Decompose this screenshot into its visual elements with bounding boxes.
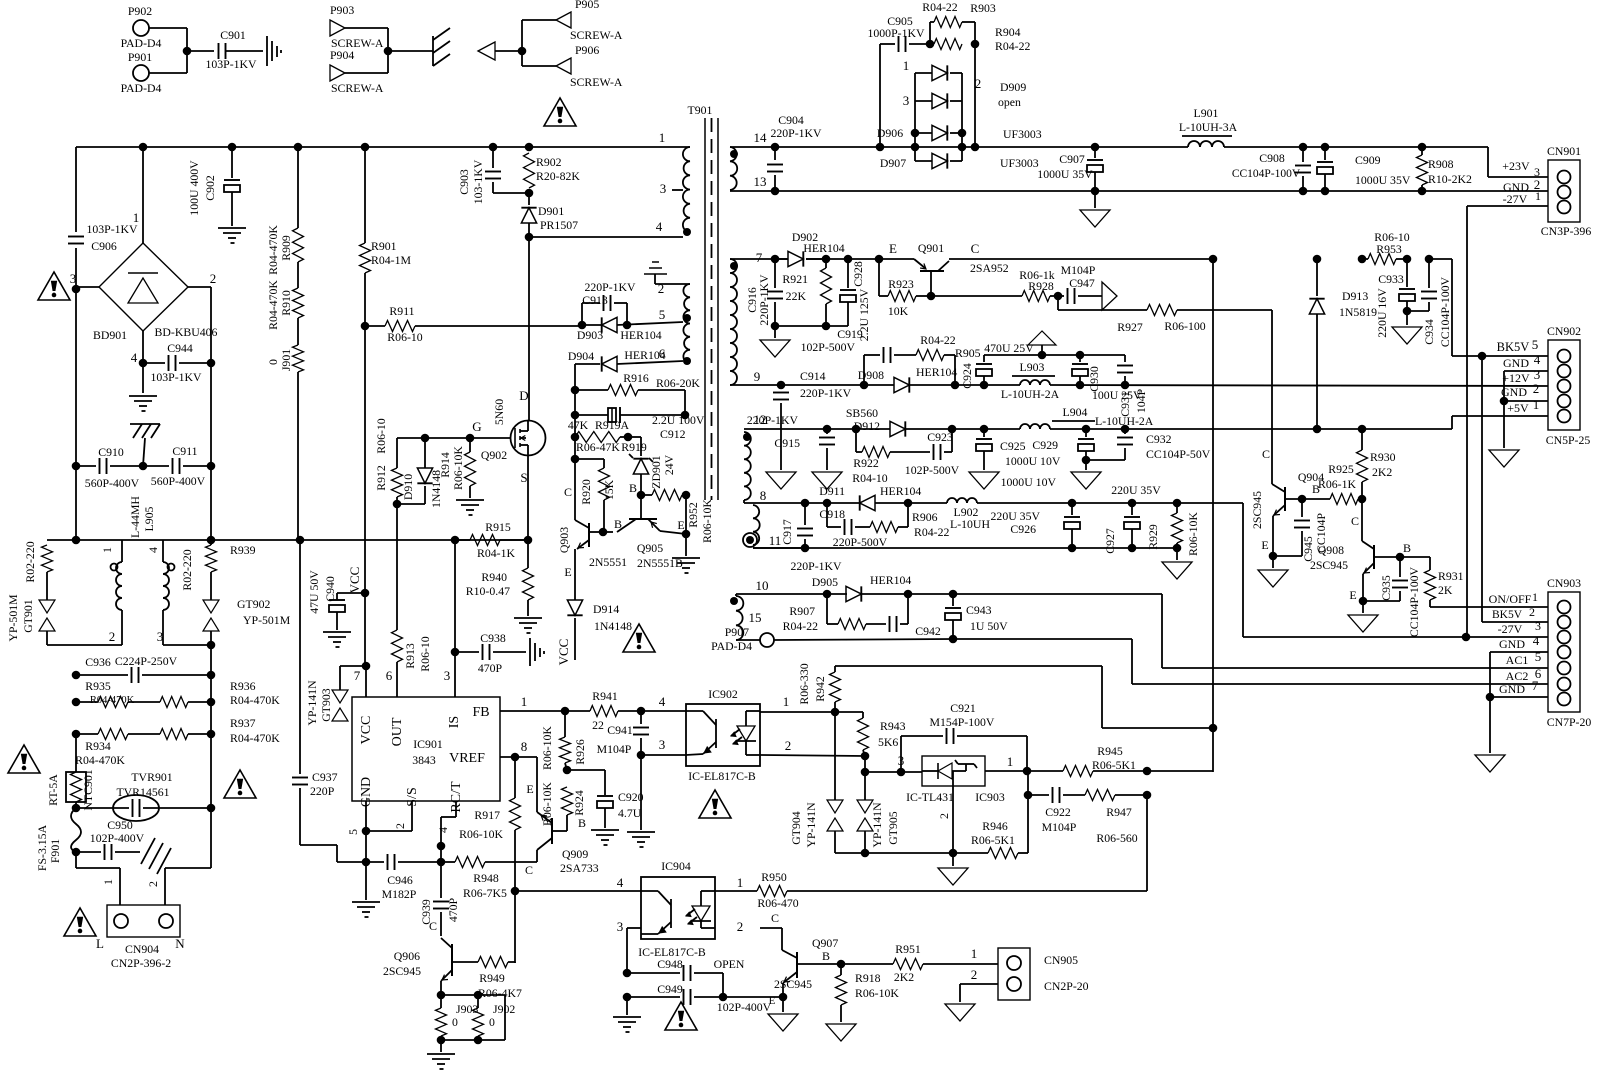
node [949,849,958,858]
svg-text:C917: C917 [780,519,794,545]
svg-text:CN7P-20: CN7P-20 [1547,715,1592,729]
svg-text:2: 2 [109,629,116,644]
capacitor C910 [76,445,143,490]
svg-text:220P-1KV: 220P-1KV [757,274,771,326]
capacitor C935 [1363,557,1421,637]
node [971,143,980,152]
wire staircase AC2 [1131,639,1133,684]
svg-text:1: 1 [1533,397,1540,412]
wire [684,390,686,415]
pad P907 [711,625,774,653]
svg-text:R912: R912 [374,465,388,491]
svg-text:R06-10K: R06-10K [855,986,899,1000]
node [393,500,402,509]
svg-text:220P-500V: 220P-500V [833,535,888,549]
resistor R909 [266,225,304,275]
ground gnd triangle [1489,450,1519,467]
wire secondary gnd bus [775,190,1548,192]
wire [949,258,1213,260]
svg-text:1: 1 [659,130,666,145]
ground gnd triangle [938,853,968,885]
connector CN901 [1541,144,1592,238]
svg-text:YP-141N: YP-141N [804,802,818,848]
wire [865,771,901,773]
svg-text:R06-560: R06-560 [1096,831,1137,845]
node [1128,499,1137,508]
resistor J903 [436,995,479,1052]
wire [149,27,187,29]
wire AC1 [1162,649,1548,668]
wire GND7 CN903 [1490,678,1548,697]
svg-text:4: 4 [1534,352,1541,367]
resistor R911 [385,304,423,344]
ground [613,1017,641,1032]
varistor TVR901 [76,770,211,821]
svg-text:Q908: Q908 [1318,543,1344,557]
svg-text:R913: R913 [403,643,417,669]
svg-text:1: 1 [1532,590,1538,604]
wire [953,638,1132,640]
wire [364,326,366,666]
svg-text:N: N [175,936,185,951]
svg-text:OUT: OUT [390,717,405,746]
ground gnd triangle [1475,755,1505,772]
capacitor C950 [76,818,145,860]
svg-text:D904: D904 [568,349,594,363]
wire [528,223,530,237]
svg-text:R907: R907 [789,604,815,618]
node [571,455,580,464]
svg-text:560P-400V: 560P-400V [151,474,206,488]
transistor Q903 [557,485,627,579]
svg-text:C921: C921 [950,701,976,715]
node [524,536,533,545]
capacitor C922 [1028,787,1085,834]
wire [640,437,642,456]
svg-text:R920: R920 [579,479,593,505]
wire [835,665,1102,667]
svg-text:R951: R951 [895,942,921,956]
svg-text:CC104P-100V: CC104P-100V [1232,168,1301,180]
ground [591,830,619,845]
node [437,991,446,1000]
node [904,499,913,508]
capacitor C941 [597,711,649,756]
node [1403,307,1412,316]
wire gate rail [397,419,510,438]
resistor R932 [23,541,53,582]
svg-text:C908: C908 [1259,151,1285,165]
svg-text:1: 1 [1535,189,1541,203]
wire [210,645,212,808]
wire [1481,356,1483,622]
node [823,590,832,599]
svg-text:1N4148: 1N4148 [594,619,632,633]
svg-text:HER104: HER104 [803,241,844,255]
screw P905 [556,0,623,42]
svg-text:R934: R934 [85,739,111,753]
svg-text:R946: R946 [982,819,1008,833]
node [511,887,520,896]
ground gnd triangle [1162,548,1192,579]
node [578,321,587,330]
svg-text:103P-1KV: 103P-1KV [86,222,138,236]
svg-text:+12V: +12V [1502,371,1530,385]
wire [985,754,1027,771]
winding secondary 14-13 [730,147,738,190]
svg-text:1N5819: 1N5819 [1339,305,1377,319]
wire pin2 [366,801,412,831]
wire [974,44,976,147]
wire [492,182,494,193]
svg-text:C928: C928 [851,261,865,287]
node [1358,495,1367,504]
svg-text:R940: R940 [481,570,507,584]
wire pin10 [736,578,810,596]
wire drain rail [528,237,530,421]
svg-text:P903: P903 [330,3,354,17]
wire [340,666,366,690]
node [861,768,870,777]
svg-text:VCC: VCC [347,567,362,594]
thermistor NTC901 [46,769,95,810]
svg-text:B: B [578,816,586,830]
svg-text:2K: 2K [1438,583,1453,597]
svg-text:M104P: M104P [1061,263,1096,277]
svg-text:4: 4 [146,547,160,553]
wire [188,286,211,288]
node [437,842,446,851]
node [72,462,81,471]
svg-text:2SC945: 2SC945 [774,977,812,991]
diode D902 [775,230,845,267]
node [904,590,913,599]
wire [146,868,165,905]
node [682,491,691,500]
svg-text:D913: D913 [1342,289,1368,303]
svg-text:R901: R901 [371,239,397,253]
resistor R945 [1027,744,1147,777]
svg-text:C924: C924 [960,363,974,389]
svg-text:22: 22 [592,718,604,732]
wire [46,631,48,645]
svg-text:2SA952: 2SA952 [970,261,1009,275]
svg-text:R06-330: R06-330 [797,663,811,704]
winding secondary 10-15 [730,596,743,640]
capacitor C909 [1317,147,1411,191]
diode D912 [846,406,905,437]
ground [514,618,542,633]
svg-text:0: 0 [452,1015,458,1029]
node [1358,255,1367,264]
wire P907 to AC2 [774,639,953,640]
resistor R912 [374,418,403,497]
svg-text:2SA733: 2SA733 [560,861,599,875]
ground gnd triangle [826,1024,856,1041]
svg-text:C950: C950 [107,818,133,832]
svg-text:47K: 47K [568,418,589,432]
svg-text:1: 1 [1007,754,1014,769]
node [948,425,957,434]
svg-text:D: D [519,388,528,403]
svg-text:E: E [889,241,897,256]
svg-text:M154P-100V: M154P-100V [930,715,995,729]
capacitor C912 [575,407,705,441]
node [1396,553,1405,562]
switch [141,838,171,874]
svg-text:E: E [526,782,533,796]
capacitor C938 [455,631,526,675]
svg-text:R928: R928 [1028,279,1054,293]
wire [567,769,605,771]
wire [337,861,366,863]
svg-text:R06-1K: R06-1K [1318,477,1356,491]
capacitor C943 [945,594,1008,639]
svg-text:P907: P907 [725,625,749,639]
svg-text:0: 0 [489,1015,495,1029]
wire [397,503,425,505]
svg-text:B: B [629,481,637,495]
resistor R918 [836,964,900,1022]
node [362,858,371,867]
wire [723,996,779,998]
svg-text:PAD-D4: PAD-D4 [121,36,162,50]
svg-text:5: 5 [1535,649,1542,664]
node [518,47,527,56]
svg-text:R931: R931 [1438,569,1464,583]
optocoupler IC902 [686,687,760,783]
resistor R915 [455,520,528,560]
svg-text:R906: R906 [912,510,938,524]
svg-text:GND: GND [1501,385,1527,399]
svg-text:1: 1 [903,58,910,73]
node [1478,352,1487,361]
svg-text:1: 1 [100,547,114,553]
svg-text:1: 1 [101,879,115,885]
node [207,698,216,707]
capacitor C911 [143,444,211,488]
svg-text:E: E [1349,588,1356,602]
svg-text:R904: R904 [995,25,1021,39]
svg-text:C920: C920 [618,790,644,804]
svg-text:IC901: IC901 [413,737,443,751]
resistor J902 [441,995,515,1040]
svg-text:D911: D911 [819,484,845,498]
svg-text:+5V: +5V [1507,401,1529,415]
node [1298,495,1307,504]
wire [75,248,77,540]
svg-text:D908: D908 [858,368,884,382]
wire [1085,460,1087,470]
svg-text:C933: C933 [1378,272,1404,286]
wire [76,867,120,869]
svg-text:5: 5 [659,307,666,322]
node [571,411,580,420]
svg-text:C923: C923 [927,430,953,444]
svg-text:R04-22: R04-22 [922,0,957,14]
resistor R903 [922,0,996,44]
node [1091,143,1100,152]
warning symbol [623,624,655,652]
svg-text:R950: R950 [761,870,787,884]
svg-text:CN901: CN901 [1547,144,1581,158]
resistor R940 [466,540,534,616]
wire [521,20,523,66]
screw P903 [330,3,384,50]
node [1068,544,1077,553]
wire pin11 [753,533,805,548]
node [139,359,148,368]
wire [387,28,389,73]
wire -27V rail [805,502,947,504]
capacitor C930 [1072,355,1142,402]
svg-text:CN903: CN903 [1547,576,1581,590]
connector pad P901 [121,50,162,95]
warning symbol [38,272,70,300]
svg-text:2: 2 [1533,381,1540,396]
svg-text:IC903: IC903 [975,790,1005,804]
resistor R929 [1146,503,1200,556]
svg-text:Q903: Q903 [557,527,571,553]
svg-text:220U 16V: 220U 16V [1375,288,1389,338]
svg-text:C941: C941 [607,723,633,737]
node [437,1036,446,1045]
svg-text:UF3003: UF3003 [1000,156,1039,170]
svg-text:2: 2 [393,823,407,829]
svg-text:C942: C942 [915,624,941,638]
ground [427,1054,455,1069]
svg-text:1000U 35V: 1000U 35V [1355,173,1411,187]
svg-text:220P: 220P [310,784,335,798]
svg-text:R911: R911 [389,304,414,318]
svg-text:open: open [998,95,1021,109]
svg-text:E: E [564,565,571,579]
svg-text:R02-220: R02-220 [180,549,194,590]
wire AC2 [1132,666,1548,684]
svg-text:M182P: M182P [382,887,417,901]
svg-text:IC-TL431: IC-TL431 [906,790,954,804]
node [466,434,475,443]
svg-text:4: 4 [656,219,663,234]
wire [187,50,214,52]
node [1418,187,1427,196]
svg-text:R06-10K: R06-10K [1186,512,1200,556]
svg-text:R06-7K5: R06-7K5 [463,886,507,900]
wire pin9 [730,369,773,385]
node [451,536,460,545]
svg-text:R04-22: R04-22 [783,619,818,633]
wire [297,318,299,345]
wire +12V top rail [984,354,1125,356]
svg-text:R902: R902 [536,155,562,169]
wire [149,72,187,74]
node [623,321,632,330]
wire [879,44,881,147]
svg-text:2K2: 2K2 [1372,465,1392,479]
node [822,255,831,264]
wire pin12 [744,412,808,429]
svg-text:D909: D909 [1000,80,1026,94]
svg-text:R02-220: R02-220 [23,541,37,582]
capacitor C929 [1032,429,1094,460]
svg-text:TVR14561: TVR14561 [116,785,169,799]
node [72,671,81,680]
inductor L902 [947,498,990,531]
wire [210,808,212,868]
svg-text:2SC945: 2SC945 [383,964,421,978]
node [72,730,81,739]
ground gnd triangle [1392,311,1422,344]
node [771,255,780,264]
wire staircase ON [1161,594,1163,668]
wire [898,753,922,772]
node [511,753,520,762]
svg-text:2: 2 [146,881,160,887]
label GND2 [1503,177,1540,194]
svg-text:3: 3 [659,737,666,752]
node [844,255,853,264]
inductor L904 [1020,405,1154,429]
svg-text:13: 13 [754,174,767,189]
wire [1147,770,1213,772]
wire [210,572,212,600]
connector CN903 [1547,576,1592,729]
diode D903 [577,317,662,342]
wire [163,644,211,646]
svg-text:R06-10K: R06-10K [540,782,554,826]
wire [165,867,211,869]
svg-text:470P: 470P [478,661,503,675]
node [637,707,646,716]
wire [226,50,263,52]
node [72,698,81,707]
node [1082,456,1091,465]
capacitor+resistor bridge 102P-500V R905 [801,333,981,385]
wire [142,363,144,393]
svg-text:+23V: +23V [1502,159,1530,173]
wire [396,504,398,630]
node [681,411,690,420]
wire +5V rail [808,428,1020,430]
capacitor C936 [76,654,211,683]
wire [655,281,690,296]
wire pin3 [444,540,455,697]
svg-text:3: 3 [444,668,451,683]
wire [1224,146,1422,148]
node [525,189,534,198]
svg-text:2K2: 2K2 [894,970,914,984]
wire [835,852,865,854]
svg-text:C946: C946 [387,873,413,887]
node [1143,767,1152,776]
svg-text:R921: R921 [782,272,808,286]
node [1068,499,1077,508]
wire [336,845,338,862]
svg-text:R929: R929 [1146,524,1160,550]
wire [1271,310,1273,484]
capacitor C915 [747,413,835,470]
node [777,381,786,390]
svg-text:1: 1 [737,875,744,890]
diode D909a [903,58,1027,109]
resistor R937 [128,716,280,745]
node [1313,425,1322,434]
resistor R921 [782,259,831,326]
svg-text:GT902: GT902 [237,597,271,611]
wire [806,241,914,259]
node [474,991,483,1000]
svg-text:C926: C926 [1010,522,1036,536]
